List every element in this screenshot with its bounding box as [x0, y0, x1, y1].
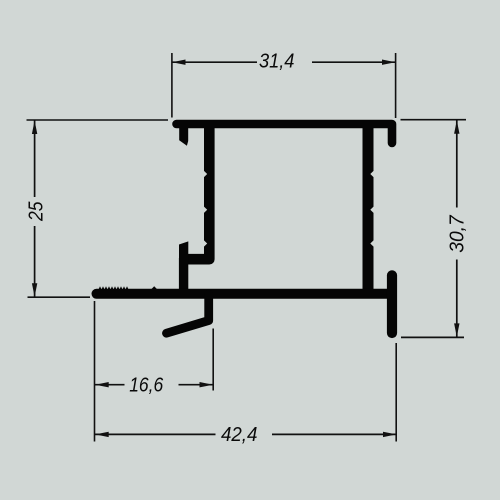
dim 30,7 line lower segment — [456, 260, 458, 337]
profile right bottom flange — [387, 275, 397, 333]
dim 31,4 arrow left — [172, 60, 186, 65]
dim 30,7 line upper segment — [456, 120, 458, 207]
dim 30,7 arrow top — [454, 120, 459, 134]
weld bump on bottom bar — [151, 286, 157, 289]
notch marks left wall — [204, 171, 208, 178]
dim 42,4 line right segment — [272, 433, 397, 435]
dim 31,4 line right segment — [312, 61, 395, 63]
dim 42,4 arrow right — [383, 432, 397, 437]
dim 31,4 arrow right — [382, 60, 396, 65]
dim 16,6 extension line right — [212, 329, 214, 391]
dim 25 line upper segment — [34, 121, 36, 198]
dim 30,7 arrow bottom — [454, 323, 459, 337]
dim 25 extension line top — [27, 119, 169, 121]
svg-text:16,6: 16,6 — [129, 375, 164, 397]
dim 31,4 line left segment — [173, 61, 258, 63]
dim 16,6 extension line left (shared with 42,4) — [94, 301, 96, 442]
dim 42,4 arrow left — [95, 432, 109, 437]
dim 31,4 extension line left — [171, 53, 173, 118]
dim 25 extension line bottom — [28, 296, 91, 298]
profile right wall — [363, 125, 374, 295]
dim 42,4 extension line right — [395, 343, 397, 442]
svg-text:42,4: 42,4 — [221, 424, 258, 446]
dim 16,6 line right segment — [179, 384, 214, 386]
profile top flange bar with right hook — [177, 124, 393, 143]
svg-text:25: 25 — [25, 201, 47, 222]
profile hook up stub — [179, 241, 188, 259]
dim 25 arrow bottom — [32, 283, 37, 297]
dim 16,6 arrow right — [200, 382, 214, 387]
dim 25 arrow top — [32, 121, 37, 135]
dim 30,7 extension line bottom — [401, 336, 464, 338]
svg-text:30,7: 30,7 — [447, 214, 469, 252]
profile hook down stub to bottom bar — [179, 258, 188, 294]
svg-text:31,4: 31,4 — [259, 51, 295, 73]
profile left wall with lower hook arm — [184, 125, 210, 260]
serration teeth on bottom bar — [99, 286, 129, 289]
dim 16,6 line left segment — [95, 384, 125, 386]
dim 16,6 arrow left — [95, 382, 109, 387]
dim 25 line lower segment — [34, 226, 36, 297]
dim 30,7 extension line top — [401, 119, 467, 121]
profile top-left stub — [179, 127, 188, 146]
profile bottom bar — [97, 289, 392, 299]
notch marks right wall — [370, 171, 374, 178]
dim 42,4 line left segment — [95, 433, 216, 435]
dim 31,4 extension line right — [395, 53, 397, 118]
profile bottom stub with diagonal leg — [167, 294, 209, 333]
